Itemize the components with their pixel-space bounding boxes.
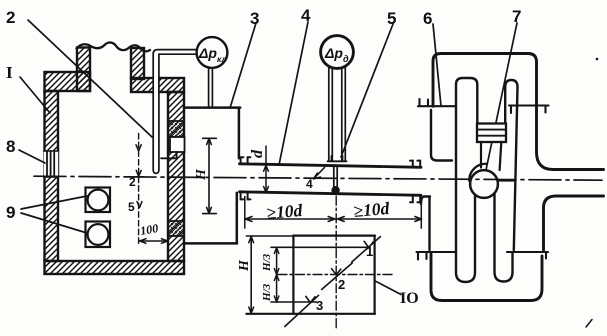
furnace top-left wall — [45, 72, 91, 91]
fan volute arc — [469, 164, 486, 181]
duct 4 top wall — [240, 164, 422, 168]
chimney left wall — [77, 48, 90, 92]
stray mark bottom right — [586, 320, 592, 328]
scrubber outer casing top — [433, 54, 604, 170]
leader line label 6 — [433, 24, 441, 106]
svg-text:I: I — [6, 63, 13, 82]
traverse point 1 — [352, 237, 381, 262]
furnace top-right wall — [131, 78, 184, 92]
horizontal section axis (dash-dot) — [278, 274, 395, 276]
dimension H/3 line — [276, 247, 278, 302]
pitot mount at duct top — [328, 156, 347, 162]
furnace right wall — [168, 92, 184, 261]
burner 9 lower: circle — [88, 224, 109, 245]
svg-text:9: 9 — [6, 203, 15, 222]
legs bellows to fan — [481, 142, 501, 170]
svg-text:≥10d: ≥10d — [266, 200, 304, 223]
svg-text:1: 1 — [366, 244, 373, 259]
svg-text:IO: IO — [400, 290, 419, 307]
traverse point 2 — [322, 263, 353, 290]
leader line label I — [20, 77, 50, 113]
svg-text:3: 3 — [250, 9, 259, 28]
dimension >=10d line — [245, 218, 421, 220]
svg-text:8: 8 — [6, 137, 15, 156]
svg-text:7: 7 — [512, 7, 521, 26]
svg-text:4: 4 — [306, 177, 313, 191]
chimney right wall — [131, 48, 144, 79]
chamber 3 bottom edge — [184, 242, 237, 245]
gauge dP-kl stem (double line) — [209, 68, 213, 107]
svg-text:5: 5 — [128, 200, 135, 214]
svg-text:2: 2 — [338, 277, 345, 292]
svg-text:H: H — [194, 168, 209, 181]
svg-text:H/3: H/3 — [261, 283, 273, 302]
inner left loop (long) — [456, 78, 477, 282]
pitot probe 5 inside duct — [334, 166, 337, 187]
traverse point 3 — [285, 295, 319, 326]
burner 9 upper: square — [86, 188, 111, 213]
gauge dP-d circle — [321, 36, 354, 69]
bellows 7 — [477, 124, 506, 143]
svg-text:3: 3 — [316, 298, 323, 313]
burner 9 upper: circle — [88, 190, 109, 211]
svg-text:6: 6 — [423, 9, 432, 28]
svg-text:≥10d: ≥10d — [353, 198, 391, 221]
upper right flange — [509, 106, 549, 114]
leader line label 4 — [279, 22, 308, 165]
svg-text:H: H — [237, 259, 252, 272]
svg-text:d: d — [249, 149, 266, 158]
svg-text:5: 5 — [387, 9, 396, 28]
dimension 100 — [140, 240, 168, 242]
measuring point 4 mark — [314, 168, 325, 179]
leader line label 3 — [230, 23, 256, 108]
pitot tip blob — [331, 186, 339, 194]
probe 2 tube (L-shaped, into furnace) — [153, 50, 196, 174]
main axis centerline — [34, 176, 602, 180]
svg-text:H/3: H/3 — [261, 253, 273, 272]
upper left flange — [418, 99, 456, 106]
probe fitting box — [170, 137, 185, 152]
svg-text:100: 100 — [139, 221, 159, 238]
leader line label 7 — [486, 23, 517, 170]
duct inlet flange hooks — [241, 157, 251, 199]
dashed datum line with arrows (2,5) — [138, 134, 140, 244]
top extension line — [246, 235, 293, 237]
sight port 8 in left wall — [44, 151, 58, 177]
inner right lower U (central pipe leg + flange leg) — [495, 194, 513, 282]
traverse section rectangle 10 — [246, 236, 375, 314]
pitot legs to gauge — [329, 67, 346, 161]
furnace bottom wall — [45, 261, 185, 274]
gauge dP-kl circle — [197, 37, 228, 68]
fan circle 7 — [470, 170, 498, 198]
stray dot top right — [596, 58, 599, 61]
gland on right wall, lower — [168, 221, 184, 236]
scrubber outlet bottom bend — [544, 196, 604, 250]
furnace left wall — [45, 91, 59, 261]
svg-text:4: 4 — [301, 6, 311, 25]
leader lines label 9 — [21, 196, 87, 233]
vertical section axis (dash-dot) — [335, 196, 337, 330]
lower left flange — [417, 252, 457, 260]
leader line label 5 — [341, 24, 393, 157]
fan right stub — [498, 179, 514, 181]
svg-text:2: 2 — [6, 8, 15, 27]
chimney torn top edge — [77, 42, 151, 51]
leader line label 8 — [19, 150, 45, 163]
duct 4 bottom wall — [240, 192, 422, 196]
probe bracket — [161, 152, 177, 158]
lower right flange — [507, 252, 548, 259]
leader line label IO — [375, 281, 401, 295]
dimension H (section) — [250, 236, 252, 314]
gland (stuffing box) on right wall, upper — [168, 121, 184, 137]
leader line label 2 — [28, 20, 152, 137]
scrubber inlet bottom piece — [421, 197, 430, 251]
chamber 3 top edge — [184, 106, 240, 109]
extension line lower third — [271, 301, 317, 303]
dimension d — [265, 146, 267, 192]
scrubber lower casing — [431, 254, 542, 301]
inner right upper U — [505, 80, 517, 250]
chamber 3 right edge lower — [236, 193, 239, 244]
scrubber inlet top piece — [431, 110, 452, 161]
burner 9 lower: square — [86, 222, 111, 248]
dimension H (chamber) — [203, 138, 217, 213]
svg-text:2: 2 — [129, 175, 136, 189]
extension line upper third — [271, 246, 369, 248]
chamber 3 right edge upper — [238, 108, 241, 159]
duct right end flange hooks — [410, 161, 420, 203]
